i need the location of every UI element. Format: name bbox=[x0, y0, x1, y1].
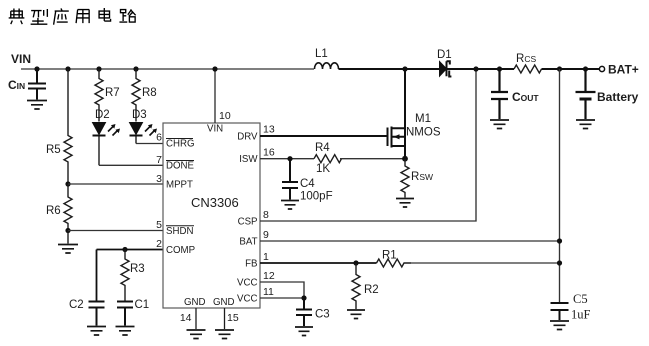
svg-text:CIN: CIN bbox=[8, 78, 25, 92]
svg-text:R1: R1 bbox=[382, 250, 397, 262]
svg-text:C4: C4 bbox=[300, 178, 315, 190]
resistor Rsw bbox=[396, 159, 433, 207]
svg-text:BAT: BAT bbox=[239, 236, 257, 247]
svg-text:VIN: VIN bbox=[207, 124, 223, 135]
node M1 source junction bbox=[402, 156, 408, 162]
capacitor Cout bbox=[490, 66, 539, 128]
svg-text:CSP: CSP bbox=[238, 216, 258, 227]
wire main rail left (VIN to L1) bbox=[21, 68, 314, 70]
svg-text:D1: D1 bbox=[437, 49, 452, 61]
svg-text:MPPT: MPPT bbox=[166, 180, 193, 191]
resistor R1 bbox=[377, 250, 412, 268]
resistor R4 bbox=[314, 142, 342, 175]
svg-text:ISW: ISW bbox=[239, 154, 258, 165]
svg-text:100pF: 100pF bbox=[300, 191, 333, 203]
svg-text:GND: GND bbox=[213, 297, 235, 308]
pin VCC 11 bbox=[237, 286, 274, 304]
svg-text:7: 7 bbox=[156, 154, 162, 166]
node BAT pin junction bbox=[557, 238, 562, 243]
node battery-net rail junction bbox=[557, 66, 562, 71]
svg-text:R3: R3 bbox=[130, 263, 145, 275]
node SHDN junction and ground bbox=[58, 228, 78, 253]
battery symbol bbox=[576, 66, 639, 128]
pin COMP 2 bbox=[156, 238, 195, 256]
pin DONE 7 bbox=[156, 154, 194, 172]
wire D1 to BAT+ with Rcs gap bbox=[448, 68, 600, 70]
svg-text:16: 16 bbox=[263, 147, 275, 159]
wire VCC12 bbox=[260, 282, 304, 298]
wire COMP pin 2 bbox=[97, 250, 164, 301]
terminal BAT+ bbox=[599, 63, 638, 77]
op-amp-ic CN3306 box bbox=[163, 123, 260, 308]
svg-text:M1: M1 bbox=[415, 113, 431, 125]
node VCC junction bbox=[301, 295, 306, 300]
wire D2 to DONE pin 7 bbox=[99, 164, 163, 166]
svg-text:2: 2 bbox=[156, 238, 162, 250]
resistor R5 bbox=[46, 66, 72, 184]
wire battery net vertical bbox=[559, 69, 561, 302]
svg-text:R2: R2 bbox=[364, 284, 379, 296]
capacitor C5 bbox=[550, 292, 591, 330]
svg-text:DONE: DONE bbox=[166, 161, 195, 172]
pin DRV 13 bbox=[237, 123, 275, 142]
svg-text:RCS: RCS bbox=[516, 53, 536, 65]
svg-text:VCC: VCC bbox=[237, 277, 257, 288]
svg-text:13: 13 bbox=[263, 123, 275, 135]
svg-text:VCC: VCC bbox=[237, 293, 257, 304]
svg-text:8: 8 bbox=[263, 209, 269, 221]
resistor R8 bbox=[132, 66, 157, 121]
svg-text:15: 15 bbox=[227, 312, 239, 324]
svg-text:5: 5 bbox=[156, 219, 162, 231]
resistor R7 bbox=[95, 66, 120, 121]
pin VIN 10 bbox=[207, 66, 231, 134]
svg-text:R7: R7 bbox=[105, 87, 120, 99]
wire L1 to D1 bbox=[339, 68, 440, 70]
svg-text:R4: R4 bbox=[315, 142, 330, 154]
svg-text:C1: C1 bbox=[135, 299, 150, 311]
node CSP rail junction bbox=[473, 66, 478, 71]
title 典型应用电路 (hand-drawn CJK strokes) bbox=[9, 8, 136, 25]
diode D1 (Schottky) bbox=[437, 49, 452, 77]
svg-text:L1: L1 bbox=[315, 48, 328, 60]
resistor R2 bbox=[347, 263, 379, 319]
wire DRV to M1 gate bbox=[260, 135, 388, 137]
pin SHDN 5 bbox=[156, 219, 194, 237]
svg-text:SHDN: SHDN bbox=[166, 226, 193, 237]
svg-text:1: 1 bbox=[263, 251, 269, 263]
svg-text:11: 11 bbox=[263, 286, 274, 298]
transistor M1 NMOS bbox=[388, 66, 441, 158]
svg-text:R6: R6 bbox=[46, 205, 61, 217]
svg-text:D2: D2 bbox=[95, 109, 110, 121]
svg-text:3: 3 bbox=[156, 173, 162, 185]
svg-text:C5: C5 bbox=[573, 292, 588, 306]
svg-text:9: 9 bbox=[263, 229, 269, 241]
svg-text:VIN: VIN bbox=[11, 52, 31, 66]
capacitor C1 bbox=[116, 299, 150, 335]
svg-text:RSW: RSW bbox=[411, 171, 433, 183]
pin FB 1 bbox=[245, 251, 269, 269]
svg-text:6: 6 bbox=[156, 132, 162, 144]
svg-text:Battery: Battery bbox=[597, 90, 639, 104]
resistor R6 bbox=[46, 184, 72, 231]
svg-text:1K: 1K bbox=[316, 163, 330, 175]
svg-text:DRV: DRV bbox=[237, 131, 258, 142]
capacitor C4 bbox=[281, 159, 333, 209]
svg-text:R5: R5 bbox=[46, 144, 61, 156]
svg-text:C3: C3 bbox=[315, 309, 330, 321]
LED D3 bbox=[130, 109, 158, 144]
svg-text:FB: FB bbox=[245, 258, 257, 269]
wire SHDN pin 5 bbox=[68, 230, 163, 232]
wire VCC11 bbox=[260, 297, 304, 299]
capacitor C3 bbox=[295, 298, 330, 336]
pin BAT 9 bbox=[239, 229, 269, 247]
pin VCC 12 bbox=[237, 270, 275, 288]
node C4 junction bbox=[287, 156, 292, 161]
wire R4 to M1 source node bbox=[340, 158, 405, 160]
svg-text:COUT: COUT bbox=[512, 90, 539, 104]
svg-text:C2: C2 bbox=[69, 299, 84, 311]
node MPPT junction bbox=[65, 181, 70, 186]
wire BAT to battery net bbox=[260, 240, 560, 242]
node R2 junction bbox=[353, 260, 358, 265]
svg-text:D3: D3 bbox=[132, 109, 147, 121]
wire R1 to battery net bbox=[411, 262, 560, 264]
capacitor C2 bbox=[69, 299, 106, 335]
resistor Rcs bbox=[514, 53, 541, 73]
wire D3 to CHRG pin 6 bbox=[136, 143, 163, 145]
pin GND 14 bbox=[180, 297, 206, 339]
pin ISW 16 bbox=[239, 147, 275, 166]
svg-text:1uF: 1uF bbox=[571, 308, 591, 322]
svg-text:GND: GND bbox=[184, 297, 206, 308]
wire CSP to rail bbox=[260, 69, 476, 221]
svg-text:14: 14 bbox=[180, 312, 192, 324]
wire FB to R1 bbox=[260, 262, 377, 264]
LED D2 bbox=[93, 109, 121, 165]
resistor R3 bbox=[121, 247, 145, 301]
svg-text:COMP: COMP bbox=[166, 245, 195, 256]
node FB divider junction bbox=[557, 260, 562, 265]
pin CHRG 6 bbox=[156, 132, 194, 150]
svg-text:BAT+: BAT+ bbox=[608, 63, 639, 77]
svg-text:NMOS: NMOS bbox=[406, 127, 441, 139]
svg-text:10: 10 bbox=[219, 110, 231, 122]
pin CSP 8 bbox=[238, 209, 269, 227]
pin GND 15 bbox=[213, 297, 239, 339]
inductor L1 bbox=[315, 48, 339, 69]
svg-text:CHRG: CHRG bbox=[166, 139, 195, 150]
svg-text:CN3306: CN3306 bbox=[191, 195, 239, 210]
svg-text:12: 12 bbox=[263, 270, 275, 282]
svg-text:R8: R8 bbox=[142, 87, 157, 99]
wire ISW to R4 bbox=[260, 158, 314, 160]
wire MPPT pin 3 bbox=[68, 183, 163, 185]
capacitor CIN bbox=[8, 66, 47, 109]
pin MPPT 3 bbox=[156, 173, 193, 191]
